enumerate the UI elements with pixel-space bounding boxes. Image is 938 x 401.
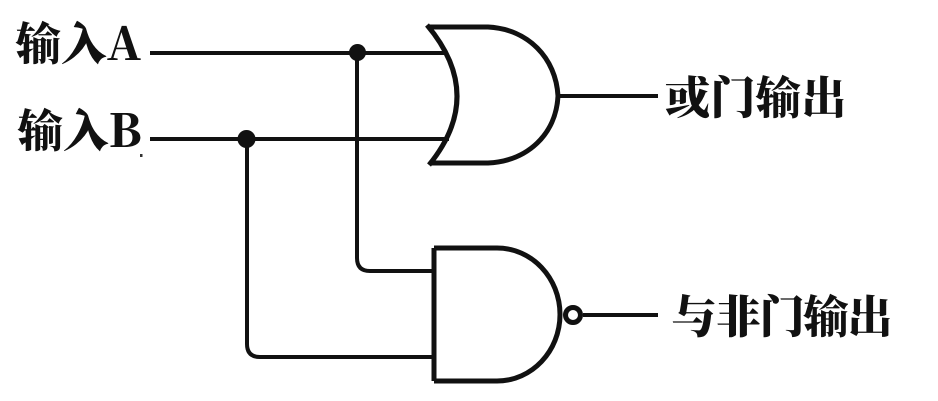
wire: input B horizontal run to OR gate pin 2 bbox=[150, 137, 449, 141]
wire: branch from node B down and right to NAND gate pin 2 bbox=[247, 139, 434, 357]
wire: branch from node A down and right to NAND gate pin 1 bbox=[357, 53, 434, 271]
net label 或门输出 (OR-gate output) bbox=[666, 75, 844, 119]
wire: NAND gate output lead bbox=[583, 313, 658, 317]
wire: OR gate output lead bbox=[557, 94, 658, 98]
inversion bubble on NAND gate output bbox=[566, 308, 581, 323]
node label 输入B (input B) bbox=[18, 108, 141, 152]
NAND gate U2 (2-input AND body, inputs A and B) bbox=[434, 248, 560, 381]
stray scan speck bbox=[140, 154, 143, 157]
OR gate U1 (2-input OR, inputs A and B) bbox=[427, 25, 558, 165]
net label 与非门输出 (NAND-gate output) bbox=[673, 294, 890, 338]
wire: input A horizontal run to OR gate pin 1 bbox=[150, 51, 447, 55]
node label 输入A (input A) bbox=[16, 21, 141, 65]
junction node B (solder dot on input-B wire) bbox=[238, 130, 256, 148]
junction node A (solder dot on input-A wire) bbox=[349, 44, 366, 61]
